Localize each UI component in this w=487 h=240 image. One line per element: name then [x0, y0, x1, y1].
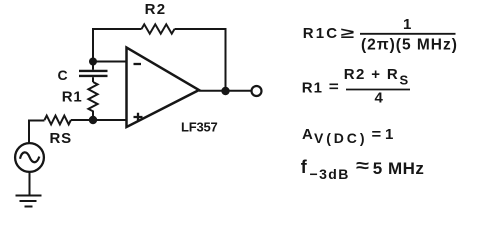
svg-text:≥: ≥ — [341, 25, 355, 42]
svg-text:=: = — [329, 79, 339, 96]
svg-text:R1C: R1C — [303, 25, 340, 42]
svg-text:S: S — [400, 73, 409, 88]
svg-text:R1: R1 — [302, 79, 323, 96]
svg-text:(2π)(5 MHz): (2π)(5 MHz) — [361, 36, 458, 53]
svg-text:=: = — [372, 126, 382, 143]
svg-text:R2 + R: R2 + R — [344, 66, 399, 83]
svg-text:R1: R1 — [62, 89, 83, 106]
svg-text:A: A — [302, 126, 313, 143]
svg-text:C: C — [58, 67, 68, 83]
svg-text:RS: RS — [50, 130, 72, 147]
svg-text:LF357: LF357 — [181, 119, 218, 134]
svg-text:R2: R2 — [145, 1, 167, 18]
svg-text:V(DC): V(DC) — [314, 130, 367, 146]
svg-text:5 MHz: 5 MHz — [373, 159, 425, 178]
svg-text:4: 4 — [375, 89, 384, 106]
svg-text:−3dB: −3dB — [310, 166, 350, 182]
svg-text:f: f — [301, 157, 308, 177]
svg-text:≈: ≈ — [356, 156, 369, 176]
svg-text:1: 1 — [385, 126, 393, 143]
svg-text:1: 1 — [403, 16, 411, 33]
